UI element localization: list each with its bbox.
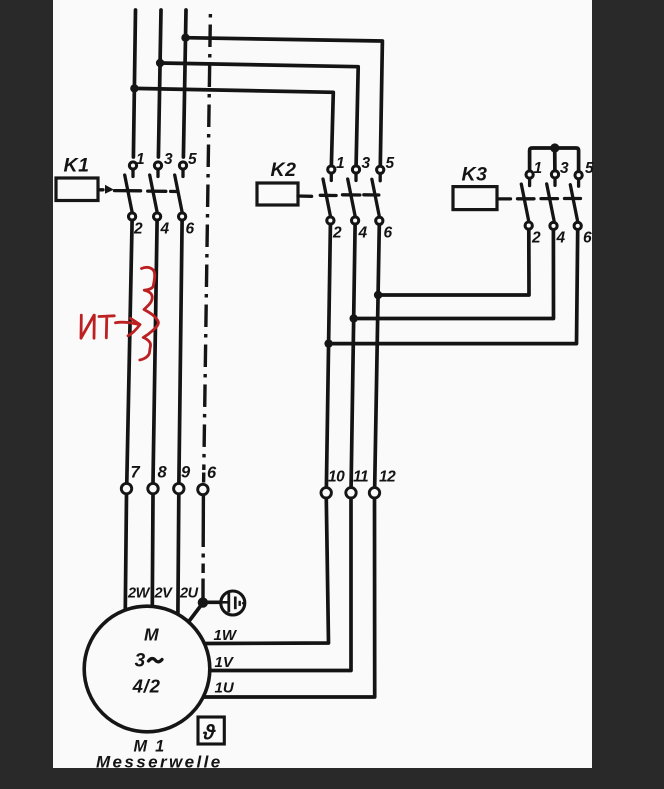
svg-text:1W: 1W — [214, 627, 238, 644]
svg-text:K3: K3 — [462, 164, 488, 186]
svg-text:4/2: 4/2 — [132, 676, 161, 697]
svg-text:4: 4 — [358, 225, 368, 242]
svg-text:3: 3 — [164, 151, 173, 168]
svg-text:K1: K1 — [64, 155, 90, 177]
svg-text:6: 6 — [186, 221, 195, 238]
svg-text:5: 5 — [386, 155, 395, 172]
svg-text:1: 1 — [336, 155, 345, 172]
svg-text:3: 3 — [135, 651, 146, 672]
svg-text:1: 1 — [136, 151, 145, 168]
svg-text:1: 1 — [534, 160, 543, 177]
svg-text:3: 3 — [362, 155, 371, 172]
svg-text:5: 5 — [585, 160, 594, 177]
svg-text:9: 9 — [181, 464, 191, 482]
svg-text:6: 6 — [583, 230, 592, 247]
svg-text:1U: 1U — [215, 680, 235, 697]
svg-text:10: 10 — [328, 469, 345, 486]
svg-text:4: 4 — [556, 230, 566, 247]
svg-text:1V: 1V — [215, 654, 235, 671]
svg-text:5: 5 — [188, 151, 197, 168]
svg-text:K2: K2 — [271, 159, 297, 181]
svg-text:M: M — [144, 625, 159, 645]
svg-text:2W: 2W — [127, 586, 151, 602]
svg-text:Messerwelle: Messerwelle — [96, 752, 223, 771]
svg-text:8: 8 — [158, 464, 168, 482]
svg-text:11: 11 — [353, 469, 368, 486]
svg-text:ϑ: ϑ — [202, 722, 216, 745]
svg-text:4: 4 — [160, 221, 170, 238]
svg-text:6: 6 — [207, 464, 217, 482]
svg-text:2: 2 — [133, 221, 143, 238]
svg-text:7: 7 — [131, 464, 141, 482]
svg-text:3: 3 — [560, 160, 569, 177]
svg-text:6: 6 — [384, 225, 393, 242]
svg-text:2V: 2V — [154, 586, 174, 602]
svg-text:2: 2 — [332, 225, 342, 242]
svg-text:12: 12 — [379, 469, 396, 486]
svg-text:2U: 2U — [179, 586, 199, 602]
svg-text:2: 2 — [531, 230, 541, 247]
